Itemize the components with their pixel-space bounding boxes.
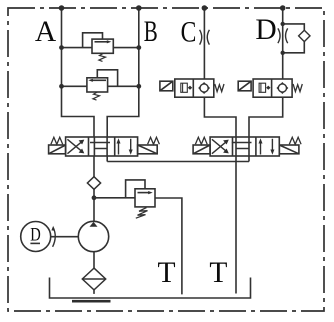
junction dot B-top xyxy=(136,5,142,11)
DV1 crossed arrows position xyxy=(67,139,82,153)
junction dot pump branch xyxy=(92,195,97,200)
check valve (diamond) in D bypass xyxy=(299,30,310,41)
wire pump pressure line xyxy=(93,189,95,221)
tank outline xyxy=(50,278,251,299)
spring xyxy=(293,84,302,92)
DV1 centre position xyxy=(94,137,107,156)
relief valve RV2 pilot line xyxy=(97,70,117,87)
spring xyxy=(215,84,224,92)
DV2 right solenoid xyxy=(279,145,299,154)
junction dots relief line 2 xyxy=(59,84,141,89)
DV1 left solenoid xyxy=(49,145,66,154)
DV1 left spring xyxy=(51,137,63,144)
wire T return header xyxy=(107,156,249,162)
check valve bypass loop at D xyxy=(283,24,305,53)
shaft wire motor to pump xyxy=(51,236,79,238)
check valve CV1 above pump xyxy=(87,177,100,190)
position symbol right: poppet xyxy=(277,83,287,93)
solenoid coil xyxy=(160,81,173,91)
DV1 right spring xyxy=(148,137,160,144)
directional valve DV1 body xyxy=(49,137,160,156)
svg-text:A: A xyxy=(35,16,57,48)
wire branch to relief valve RV3 xyxy=(94,197,135,199)
wire RV3 outlet to tank xyxy=(155,198,182,294)
DV2 centre position xyxy=(236,137,249,156)
solenoid valve SV2 (D line) xyxy=(238,79,302,97)
relief valve RV1 pilot line xyxy=(83,33,103,48)
wire relief line 2 xyxy=(62,85,139,87)
wire pump suction xyxy=(93,252,95,268)
svg-text:T: T xyxy=(157,257,175,289)
relief valve RV3 xyxy=(135,189,155,218)
junction dots D bypass xyxy=(281,22,285,55)
junction dot C-top xyxy=(202,5,208,11)
node D rail wire xyxy=(249,8,283,156)
electric motor M1 xyxy=(21,222,51,252)
svg-text:B: B xyxy=(144,16,158,48)
node B rail wire xyxy=(107,8,139,162)
node C rail wire xyxy=(204,8,236,156)
wire T return down to tank xyxy=(235,162,237,294)
directional valve DV2 body xyxy=(193,137,301,156)
DV2 parallel arrows position xyxy=(261,139,273,155)
DV2 left solenoid xyxy=(193,145,210,154)
position symbol left xyxy=(259,83,266,92)
quick coupling on D line xyxy=(278,28,288,43)
relief valve RV3 pilot line xyxy=(126,180,145,198)
junction dot D-top xyxy=(280,5,286,11)
hydraulic pump P1 xyxy=(78,221,108,251)
DV1 parallel arrows position xyxy=(119,139,131,155)
DV2 right spring xyxy=(289,137,301,144)
suction filter F1 xyxy=(82,268,105,294)
position symbol left xyxy=(181,83,188,92)
DV2 left spring xyxy=(195,137,207,144)
relief valve RV2 xyxy=(87,78,108,100)
junction dot A-top xyxy=(59,5,65,11)
tank base bar xyxy=(72,300,111,303)
svg-text:C: C xyxy=(181,15,197,48)
DV1 right solenoid xyxy=(138,145,158,154)
solenoid coil xyxy=(238,81,251,91)
wire relief line 1 xyxy=(62,47,139,49)
position symbol right: poppet xyxy=(199,83,209,93)
junction dots relief line 1 xyxy=(59,45,141,50)
node A rail wire xyxy=(62,8,95,177)
solenoid valve SV1 (C line) xyxy=(160,79,224,97)
quick coupling on C line xyxy=(200,30,210,45)
relief valve RV1 xyxy=(92,39,113,61)
svg-text:T: T xyxy=(209,257,227,289)
coupling arc xyxy=(53,228,56,247)
svg-text:D: D xyxy=(30,225,41,246)
svg-text:D: D xyxy=(255,14,276,46)
DV2 crossed arrows position xyxy=(212,139,227,153)
